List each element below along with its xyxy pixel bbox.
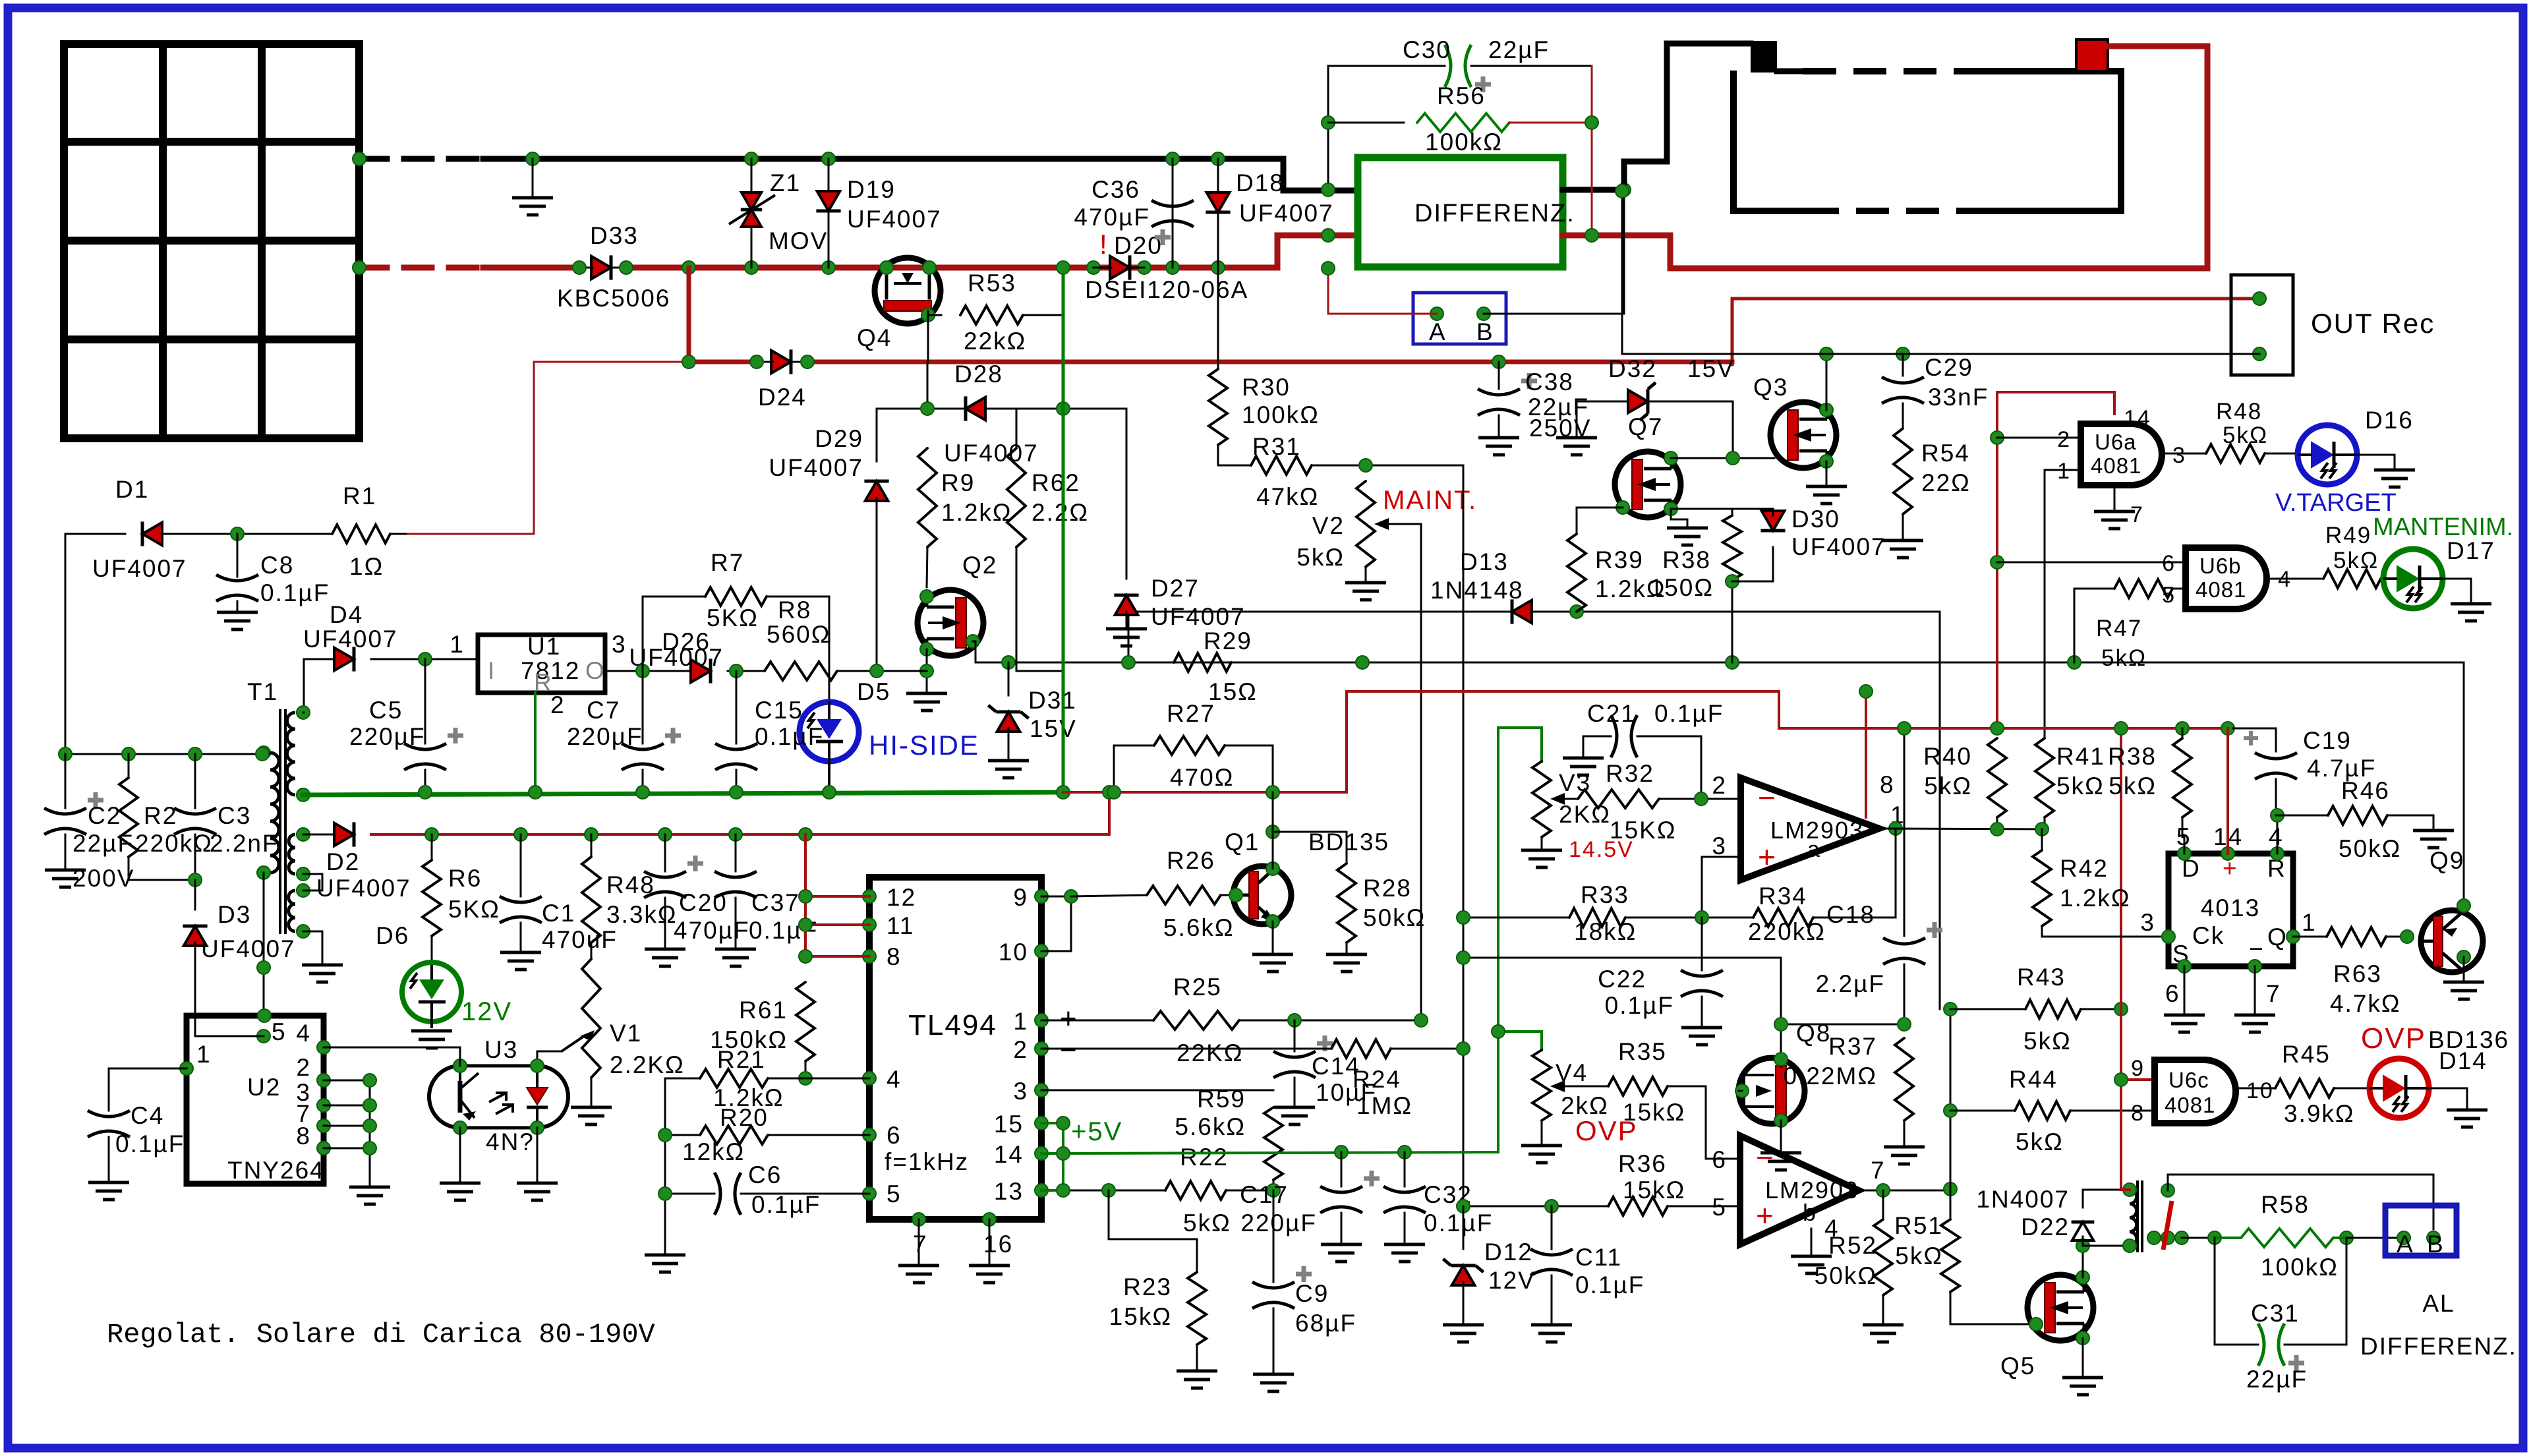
svg-text:5kΩ: 5kΩ [2056,772,2105,800]
diode D19 UF4007 [816,159,941,268]
svg-text:R46: R46 [2341,777,2390,804]
node pin8 [1859,685,1873,698]
svg-text:R22: R22 [1180,1144,1229,1171]
wire C21 red loop [1347,691,1779,792]
svg-text:D29: D29 [815,425,863,452]
resistor R6 5K [422,834,500,965]
svg-text:14: 14 [994,1141,1024,1168]
svg-text:5kΩ: 5kΩ [1924,772,1972,800]
wire U6c out [2236,1088,2275,1090]
svg-text:UF4007: UF4007 [769,454,863,481]
zener D31 15V [988,662,1077,778]
svg-text:R51: R51 [1894,1212,1943,1239]
svg-text:5kΩ: 5kΩ [1895,1242,1943,1269]
svg-text:3: 3 [2172,443,2186,468]
resistor R7 5K [643,549,829,701]
resistor R33 18k [1569,881,1753,945]
wire pin1 line [1041,1020,1153,1022]
svg-text:4013: 4013 [2201,894,2260,921]
capacitor C7 220uF [567,671,681,792]
svg-text:R8: R8 [778,597,811,624]
svg-text:Q3: Q3 [1753,374,1788,401]
wire 4013 pin14 red [2226,728,2229,854]
resistor R46 50k [2276,777,2454,862]
capacitor C32 0.1uF [1383,1152,1493,1262]
wire opamp b out [1883,1190,1950,1192]
varistor Z1 MOV [729,159,828,268]
node pin2 [1457,1042,1470,1055]
svg-text:I: I [488,657,496,684]
resistor R41 5k [2035,738,2105,829]
svg-text:KBC5006: KBC5006 [557,285,670,312]
svg-text:D31: D31 [1028,687,1077,714]
wire T1 sec3 gnd [302,931,343,982]
wire 4013 pin5 [2182,837,2184,854]
svg-text:AL: AL [2422,1290,2455,1317]
svg-text:22KΩ: 22KΩ [1177,1039,1244,1066]
svg-text:MANTENIM.: MANTENIM. [2373,513,2513,541]
trimmer V4 2k [1521,1050,1638,1163]
node panel- junctions [353,152,1225,165]
connector A/B [1413,293,1506,345]
svg-text:13: 13 [994,1178,1024,1205]
svg-text:R39: R39 [1595,546,1644,573]
svg-text:C38: C38 [1525,368,1574,395]
node D13 [1570,605,1583,618]
node T1 pins [257,706,310,938]
wire green DIFF vertical [1062,268,1065,792]
svg-text:f=1kHz: f=1kHz [885,1148,969,1175]
resistor R21 1.2k [665,1046,869,1111]
wire R33 line [1463,917,1569,919]
svg-text:UF4007: UF4007 [316,875,411,902]
node chain [1944,1003,1957,1117]
svg-text:220µF: 220µF [1240,1209,1317,1237]
svg-text:5kΩ: 5kΩ [2223,422,2268,448]
wire R38b src [1671,509,1732,515]
svg-text:1MΩ: 1MΩ [1356,1092,1412,1119]
resistor R44 5k [1950,1066,2155,1155]
wire PV+ bus 2 [626,235,1358,268]
svg-text:UF4007: UF4007 [201,935,296,962]
svg-text:5kΩ: 5kΩ [2023,1028,2072,1055]
capacitor C18 2.2uF [1816,728,1942,1024]
resistor R43 5k [1950,964,2121,1055]
svg-text:R48: R48 [2216,399,2262,424]
node A red [1322,262,1335,275]
svg-text:D27: D27 [1151,575,1200,602]
node R58 line [2208,1231,2353,1244]
svg-text:11: 11 [887,912,914,939]
node green bus [419,786,1070,799]
svg-text:C19: C19 [2303,727,2352,754]
resistor R62 2.2R [1007,409,1089,671]
svg-text:5.6kΩ: 5.6kΩ [1163,914,1235,941]
svg-text:Q7: Q7 [1628,413,1663,440]
resistor R26 5.6k [1071,847,1235,941]
wire red sense bus [1779,727,2233,730]
resistor R45 3.9k [2275,1041,2370,1127]
resistor R29 15R [1174,627,1258,705]
svg-text:1N4148: 1N4148 [1430,577,1524,604]
wire green V4 branch [1498,1032,1542,1050]
resistor R24 1M [1331,1039,1463,1119]
wire pin5 line [1463,1206,1608,1208]
capacitor C15 0.1uF [715,671,824,792]
svg-text:50kΩ: 50kΩ [1363,904,1426,931]
svg-text:C30: C30 [1403,36,1451,63]
wire opamp b gnd [1791,1229,1832,1273]
svg-text:0.1µF: 0.1µF [1605,992,1674,1019]
wire TL494 grounds [898,1219,1010,1283]
svg-text:Q1: Q1 [1225,829,1260,856]
svg-text:U6a: U6a [2095,430,2137,454]
svg-text:220µF: 220µF [567,723,643,750]
diode D30 UF4007 [1732,506,1886,581]
transistor Q1 BD135 [1225,829,1389,924]
svg-text:U1: U1 [527,633,561,660]
svg-text:C31: C31 [2251,1300,2300,1327]
resistor R30 100k [1209,268,1320,465]
svg-text:R41: R41 [2056,743,2105,770]
node D28 line [921,402,1070,415]
wire D28 line [877,363,1016,409]
capacitor C22 0.1uF [1598,917,1723,1045]
capacitor C38 22uF 250V [1478,362,1591,455]
trimmer V1 2.2K [537,943,685,1124]
svg-text:9: 9 [1013,884,1028,911]
wire D1 left down [65,534,67,754]
node R29 line [1002,656,2081,669]
capacitor C17 220uF [1240,1152,1380,1262]
diode D27 UF4007 [1106,409,1246,646]
svg-text:18kΩ: 18kΩ [1574,918,1637,945]
diode D4 UF4007 [303,601,478,713]
wire C30 left [1327,66,1329,190]
svg-text:2.2nF: 2.2nF [210,830,279,857]
resistor R1 1R [237,482,406,580]
wire U6a pin1 [2045,470,2081,738]
node Q7 drain [1726,451,1739,465]
mosfet Q3 [1770,402,1836,468]
svg-text:1N4007: 1N4007 [1976,1186,2070,1213]
node relay pins [2123,1183,2136,1252]
resistor R8 560R [765,597,927,680]
svg-text:R6: R6 [448,865,482,892]
wire U3 collector [324,1047,460,1066]
node Q2/R8 [920,664,933,678]
svg-text:0.1µF: 0.1µF [1575,1271,1644,1298]
label R48 value [2223,422,2268,448]
svg-text:470µF: 470µF [1074,204,1150,231]
svg-text:3.9kΩ: 3.9kΩ [2284,1100,2355,1127]
resistor R39 1.2k [1567,534,1666,612]
svg-text:R45: R45 [2282,1041,2331,1068]
capacitor C2 22uF 200V [44,754,134,892]
wire Q8 line [1463,958,1781,1059]
svg-text:V2: V2 [1312,512,1345,539]
svg-text:UF4007: UF4007 [303,626,398,653]
wire A red [1328,268,1437,314]
svg-text:68µF: 68µF [1295,1310,1356,1337]
svg-text:1: 1 [2057,459,2071,484]
svg-text:6: 6 [2165,980,2180,1007]
capacitor C1 470uF [500,834,618,970]
svg-text:R23: R23 [1123,1273,1172,1300]
wire Q2 drain gnd [906,649,947,711]
svg-text:15: 15 [994,1111,1024,1138]
node pin9 [1064,890,1078,903]
battery BT1 red terminal [2076,40,2108,71]
resistor R37 0.22M [1784,1033,1925,1164]
svg-text:6: 6 [887,1122,902,1149]
node top line [59,747,269,761]
resistor R9 1.2k [918,448,1012,587]
svg-text:2: 2 [550,691,566,718]
svg-text:R29: R29 [1204,627,1252,655]
svg-text:1: 1 [2302,909,2317,936]
ic U1 7812 [450,631,626,718]
svg-text:R31: R31 [1252,433,1301,460]
svg-text:R37: R37 [1828,1033,1877,1060]
led D14 OVP [2361,1022,2487,1127]
svg-text:15V: 15V [1030,715,1077,742]
wire batt black [1624,44,1751,190]
svg-text:2: 2 [296,1054,311,1081]
svg-text:D1: D1 [115,476,149,503]
node red 12V [1103,786,1279,799]
wire green vert [1497,728,1499,1152]
svg-text:1Ω: 1Ω [349,553,384,580]
svg-text:B: B [2427,1231,2445,1258]
node OUT rec bottom [1615,185,1629,198]
svg-text:U3: U3 [484,1036,518,1063]
wire relay red [2121,728,2155,1190]
svg-text:D28: D28 [954,361,1003,388]
wire R1 tap red [404,362,534,534]
svg-text:−: − [1756,1140,1775,1175]
wire Q8 src gnd [1760,1121,1801,1170]
resistor R53 22k [960,270,1063,355]
svg-text:Q: Q [2267,923,2288,950]
svg-text:R52: R52 [1828,1232,1877,1259]
wire D24 out bus [807,299,2259,364]
node opamp a out [1889,822,1902,835]
svg-text:R38: R38 [2108,743,2157,770]
wire green bus [303,792,1063,795]
resistor R28 50k [1273,832,1426,972]
wire green to V3 [1498,728,1542,761]
transistor Q9 BD136 [2400,847,2509,1053]
wire Q3 top line [0,0,1,1]
wire R21 left [645,1078,685,1272]
svg-text:D14: D14 [2439,1047,2487,1074]
svg-text:OVP: OVP [2361,1022,2426,1055]
svg-text:C17: C17 [1240,1181,1289,1208]
wire PV+ bus [483,265,579,271]
node DIFF right [1617,183,1631,196]
svg-text:Q2: Q2 [962,552,997,579]
diode D13 1N4148 [1430,548,1532,624]
svg-text:3: 3 [2140,909,2155,936]
mosfet Q4 [857,258,941,351]
wire Q3 src gnd [1806,461,1847,504]
svg-text:3: 3 [612,631,627,658]
node 4013 pins [2162,847,2300,973]
node R32 [1695,792,1708,805]
node R31/V2 [1359,459,1372,472]
ic U4 4013 [2140,823,2316,1007]
resistor R27 470R [1114,700,1273,792]
svg-text:5KΩ: 5KΩ [448,896,500,923]
svg-text:1: 1 [196,1041,212,1068]
svg-text:V.TARGET: V.TARGET [2275,489,2397,517]
zener D12 12V [1443,1206,1536,1342]
wire panel- dashed [359,156,491,162]
label R47 value [0,0,1,1]
svg-text:D18: D18 [1236,169,1285,196]
svg-text:MOV: MOV [769,227,828,254]
svg-text:D30: D30 [1791,506,1840,533]
svg-text:2: 2 [1712,772,1727,799]
resistor R63 4.7k [2293,927,2407,1017]
svg-text:2.2Ω: 2.2Ω [1032,499,1089,526]
resistor R23 15k [1109,1190,1217,1388]
svg-text:470uF: 470uF [542,926,618,953]
node Q1 [1229,825,1279,928]
svg-text:6: 6 [2162,551,2176,576]
ic U2 TNY264 [187,1016,325,1184]
wire T1 sec1 top [303,712,304,714]
svg-text:R35: R35 [1618,1038,1667,1065]
gate U6c 4081 [2131,1056,2274,1126]
svg-text:12V: 12V [1488,1267,1536,1294]
node pin1 line [1288,1014,1428,1027]
svg-text:D6: D6 [376,922,409,949]
opamp U5b LM2903 [1712,1136,1885,1244]
resistor R54 22R [1882,428,1971,558]
svg-text:Ck: Ck [2192,922,2225,949]
capacitor C21 0.1uF [1563,700,1724,799]
ground at panel- bus [512,159,553,215]
trimmer V2 5k [1296,481,1421,1020]
wire T1 prim top [262,753,270,754]
wire batt red [1563,46,2207,268]
wire D2 red rail [371,833,1109,836]
resistor R31 47k [1218,433,1463,510]
svg-text:Z1: Z1 [770,169,801,196]
resistor R59 5.6k [1175,1086,1283,1190]
svg-text:D33: D33 [590,222,639,249]
svg-text:R27: R27 [1167,700,1215,727]
capacitor C3 2.2nF [174,754,279,880]
node U2 pins [180,1009,330,1155]
resistor R49 5k [2323,523,2383,588]
block DIFFERENZ [1358,158,1575,267]
svg-text:D13: D13 [1460,548,1509,575]
svg-text:10: 10 [999,939,1028,966]
diode D33 KBC5006 [557,222,670,312]
svg-text:C7: C7 [587,697,620,724]
resistor R35 15k [1608,1038,1740,1159]
ic TL494 pin labels [887,884,1078,1258]
node Q8 drain tap [1774,1018,1788,1031]
svg-text:R40: R40 [1923,743,1972,770]
node U6a vcc [1991,431,2004,569]
svg-text:R58: R58 [2261,1191,2310,1218]
resistor R58 100k [2215,1191,2404,1281]
svg-text:50kΩ: 50kΩ [2339,835,2401,862]
svg-text:C15: C15 [755,697,803,724]
svg-text:100kΩ: 100kΩ [1425,129,1503,156]
svg-text:3: 3 [1013,1078,1028,1105]
svg-text:1: 1 [1013,1008,1028,1035]
diode D26 UF4007 [629,628,765,684]
svg-text:R38: R38 [1662,546,1711,573]
svg-text:C21: C21 [1587,700,1636,727]
svg-text:D17: D17 [2447,537,2495,564]
svg-text:560Ω: 560Ω [767,621,830,648]
wire Q4 gate down [927,315,929,363]
wire Q3 drain up [1826,354,1828,410]
node R40R41 bottom [1991,823,2049,836]
svg-text:C8: C8 [260,552,294,579]
svg-text:22kΩ: 22kΩ [964,328,1026,355]
svg-text:Q4: Q4 [857,324,892,351]
svg-text:C2: C2 [88,802,121,829]
svg-text:4: 4 [887,1066,902,1093]
svg-text:b: b [1803,1199,1817,1226]
capacitor C11 0.1uF [1530,1206,1644,1342]
svg-text:R2: R2 [144,802,177,829]
svg-text:!: ! [1099,229,1109,260]
svg-text:U6b: U6b [2199,554,2242,578]
svg-text:0.1µF: 0.1µF [755,723,824,750]
wire U1 out line [605,670,692,672]
wire U2 jumpers [324,1080,390,1204]
svg-text:6: 6 [1712,1146,1727,1173]
wire Q1 emitter [1252,921,1293,972]
svg-text:D16: D16 [2365,407,2414,434]
gate U6a 4081 [2057,406,2186,527]
svg-text:470µF: 470µF [674,917,750,944]
connector OUT Rec [2231,275,2435,375]
svg-text:R36: R36 [1618,1150,1667,1177]
svg-text:C29: C29 [1925,354,1973,381]
svg-text:+: + [1758,840,1777,874]
svg-text:5: 5 [272,1018,287,1045]
node C18/R37 [1898,1018,1911,1031]
svg-text:22µF: 22µF [2246,1366,2308,1393]
wire Q5 drain [2082,1246,2084,1277]
svg-text:47kΩ: 47kΩ [1256,483,1319,510]
svg-text:D5: D5 [857,678,890,705]
wire U6a pin7 gnd [2094,485,2135,529]
wire D22 bottom [2083,1245,2130,1247]
svg-text:R24: R24 [1353,1066,1401,1093]
svg-text:C9: C9 [1295,1280,1329,1307]
resistor R22 5k [1041,1144,1273,1237]
node C29 top [1820,347,1909,361]
wire 4013 grounds [2164,966,2275,1032]
svg-text:HI-SIDE: HI-SIDE [869,730,979,761]
svg-text:0.22MΩ: 0.22MΩ [1784,1063,1878,1090]
label R36 value [1623,1177,1685,1204]
transformer T1 [247,678,295,933]
wire opamp a pin3 [1702,857,1741,917]
wire Q7 gate [1577,508,1623,534]
capacitor C36 470uF [1074,159,1194,268]
